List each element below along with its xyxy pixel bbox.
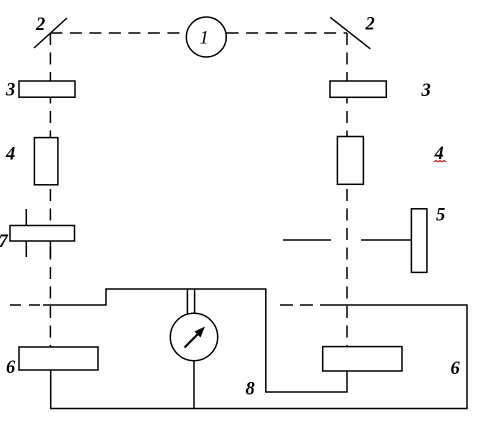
svg-text:4: 4 [5, 145, 15, 165]
svg-text:3: 3 [5, 81, 15, 101]
svg-text:6: 6 [451, 359, 461, 379]
svg-text:6: 6 [6, 358, 16, 378]
svg-text:4: 4 [434, 144, 444, 164]
svg-text:1: 1 [200, 29, 209, 49]
svg-text:7: 7 [0, 232, 9, 252]
svg-text:8: 8 [246, 380, 255, 400]
svg-text:2: 2 [35, 15, 45, 35]
svg-text:3: 3 [421, 81, 431, 101]
svg-text:5: 5 [436, 206, 445, 226]
svg-text:2: 2 [365, 15, 375, 35]
